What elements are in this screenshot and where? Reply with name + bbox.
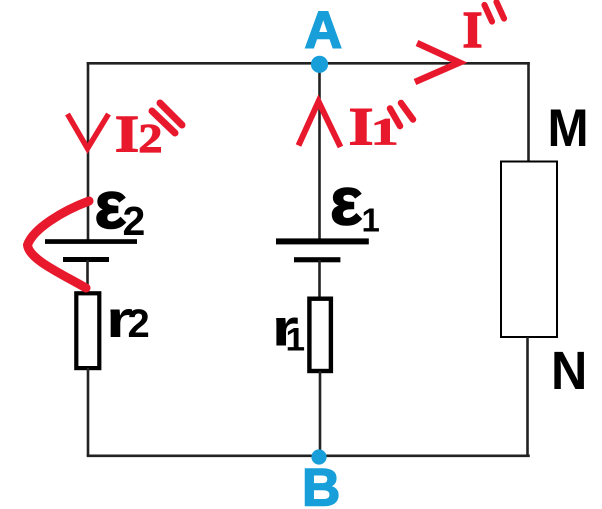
svg-text:1: 1 (286, 323, 306, 358)
resistor MN (501, 162, 557, 338)
label N (551, 342, 587, 402)
current arrow I chevron right (415, 43, 460, 82)
label I2 (115, 104, 140, 163)
svg-text:ε: ε (330, 163, 362, 239)
node B label (302, 459, 340, 509)
node A label (305, 2, 343, 60)
battery E1 plate short (294, 257, 340, 262)
label epsilon1 (330, 163, 362, 239)
label I1 double prime (390, 103, 413, 126)
label I2 subscript 2 (138, 115, 162, 161)
svg-text:2: 2 (123, 198, 146, 244)
svg-text:A: A (305, 2, 343, 60)
label r1 subscript 1 (286, 323, 306, 358)
label I double prime (485, 2, 505, 22)
node B dot (311, 449, 326, 464)
label epsilon2 (95, 168, 127, 243)
label r2 (106, 291, 133, 349)
wire middle lower (319, 371, 322, 456)
resistor r1 (309, 299, 331, 371)
resistor r2 (76, 293, 99, 368)
wire top (87, 62, 530, 65)
battery E1 plate long (276, 238, 369, 244)
svg-text:B: B (302, 459, 340, 509)
wire middle upper (318, 64, 321, 241)
wire left lower (87, 368, 90, 456)
battery E2 plate long (45, 239, 137, 244)
label r2 subscript 2 (128, 302, 150, 346)
label I1 (348, 97, 373, 156)
wire right upper (527, 62, 530, 162)
node A dot (311, 56, 328, 73)
current arrow I2 chevron down (68, 114, 109, 149)
current arrow I1 chevron up (299, 102, 341, 148)
svg-text:2: 2 (128, 302, 150, 346)
svg-text:N: N (551, 342, 587, 402)
emf arc mark at E2 (28, 201, 90, 288)
label I1 subscript 1 (371, 110, 399, 153)
svg-text:1: 1 (362, 202, 380, 239)
label M (548, 99, 589, 158)
label I (463, 2, 483, 59)
svg-text:I: I (115, 104, 140, 163)
label r1 (272, 299, 299, 357)
wire left upper (87, 62, 90, 241)
wire right lower (526, 337, 529, 456)
label epsilon2 subscript 2 (123, 198, 146, 244)
wire middle mid (318, 260, 321, 299)
wire bottom (87, 454, 530, 457)
svg-text:M: M (548, 99, 589, 158)
battery E2 plate short (63, 257, 109, 262)
label I2 double prime (152, 103, 182, 133)
label epsilon1 subscript 1 (362, 202, 380, 239)
wire left mid (86, 260, 89, 293)
svg-text:I: I (463, 2, 483, 59)
